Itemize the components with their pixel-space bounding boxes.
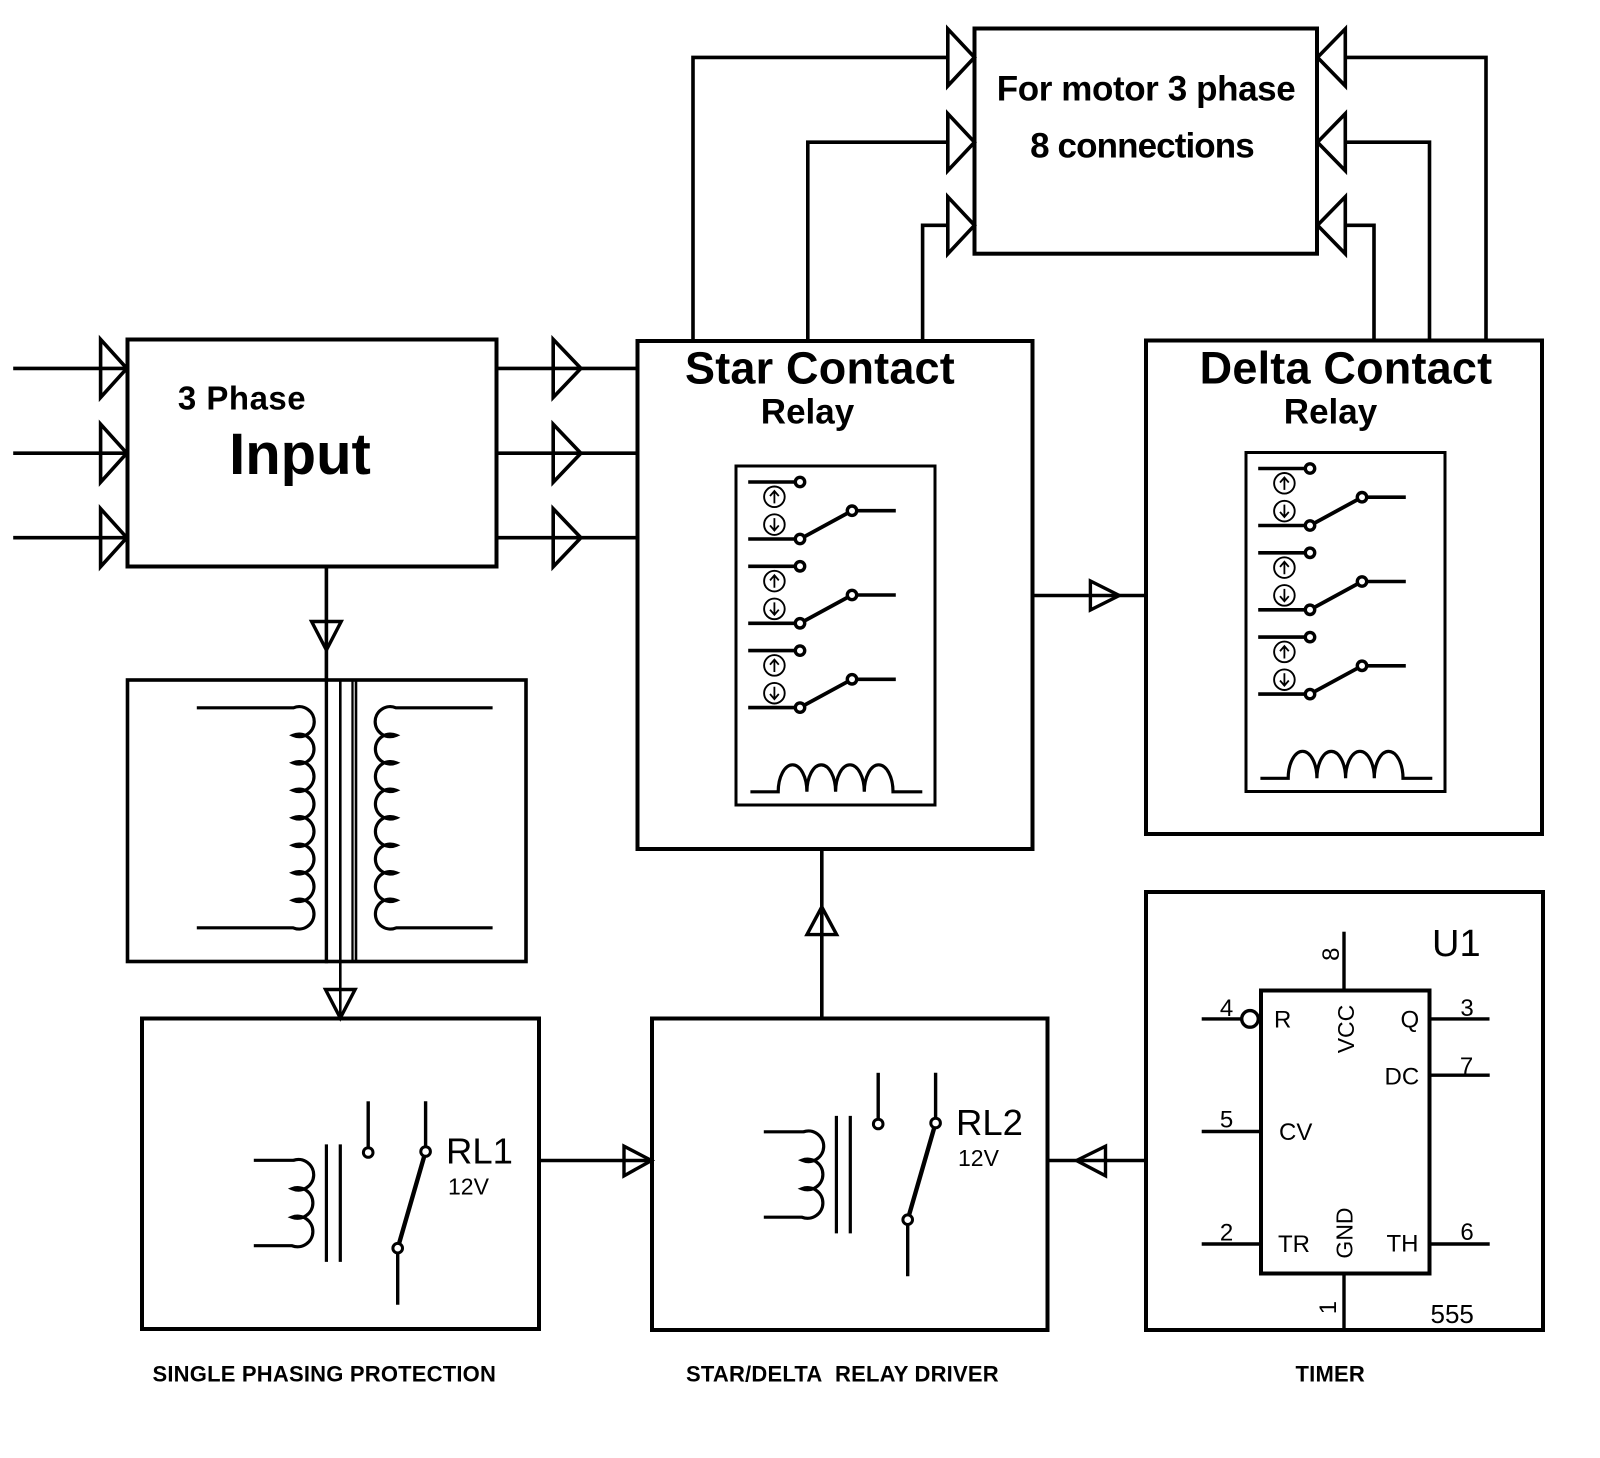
relay RL1 coil bbox=[255, 1159, 313, 1246]
arrow: L2 toward star contact bbox=[553, 424, 581, 482]
pin 3 wire (Q output) bbox=[1430, 1017, 1488, 1020]
arrow: star to delta bbox=[1090, 581, 1119, 610]
pin 7 wire (DC) bbox=[1430, 1073, 1489, 1076]
relay RL1 contact circles bbox=[363, 1148, 373, 1158]
pin 1 wire (GND) bbox=[1342, 1274, 1345, 1331]
svg-text:TIMER: TIMER bbox=[1296, 1361, 1365, 1386]
svg-text:555: 555 bbox=[1431, 1299, 1474, 1329]
arrow: L3 into input block bbox=[101, 509, 127, 567]
block: star/delta relay driver box (RL2) bbox=[652, 1019, 1048, 1331]
svg-text:TH: TH bbox=[1387, 1231, 1419, 1258]
svg-text:7: 7 bbox=[1460, 1053, 1473, 1080]
wire: delta output 3 to motor box bbox=[1345, 225, 1374, 340]
svg-text:8: 8 bbox=[1318, 948, 1345, 961]
relay K2 inner box (delta) bbox=[1246, 453, 1445, 792]
wire: star to delta contact bbox=[1033, 594, 1147, 598]
pin 4 wire (reset) bbox=[1203, 1017, 1241, 1020]
block: transformer box bbox=[128, 680, 527, 962]
svg-text:5: 5 bbox=[1220, 1106, 1233, 1133]
relay K1 contacts pole 2 (star) bbox=[750, 562, 894, 628]
svg-text:VCC: VCC bbox=[1333, 1005, 1359, 1054]
wire: L2 input box to star contact box bbox=[497, 451, 638, 455]
svg-text:Input: Input bbox=[229, 422, 371, 487]
wire: RL1 to RL2 bbox=[539, 1159, 652, 1163]
arrow: L2 into input block bbox=[101, 424, 127, 482]
svg-text:GND: GND bbox=[1332, 1207, 1358, 1258]
wire: delta output 1 to motor box bbox=[1345, 57, 1486, 340]
relay RL2 coil bbox=[765, 1131, 823, 1218]
wire: input box down to transformer bbox=[325, 567, 329, 681]
svg-text:Relay: Relay bbox=[761, 392, 855, 431]
arrow: timer to RL2 bbox=[1077, 1146, 1106, 1176]
relay RL1 fixed contact bbox=[367, 1103, 370, 1148]
block: single phasing protection box (RL1) bbox=[142, 1019, 539, 1330]
svg-text:RL2: RL2 bbox=[956, 1102, 1023, 1143]
arrow: star wire 2 into motor box bbox=[948, 114, 975, 171]
svg-text:Relay: Relay bbox=[1284, 392, 1378, 431]
wire: phase L1 input line bbox=[15, 367, 128, 371]
svg-text:TR: TR bbox=[1278, 1231, 1310, 1258]
svg-text:For motor 3 phase: For motor 3 phase bbox=[997, 70, 1296, 109]
transformer core line 1 / output wire to RL1 box bbox=[339, 680, 342, 1018]
arrow: star wire 3 into motor box bbox=[948, 197, 975, 254]
wire: phase L3 input line bbox=[15, 536, 128, 540]
relay RL2 core lines bbox=[836, 1118, 850, 1232]
arrow: delta wire 2 into motor box bbox=[1318, 114, 1346, 171]
svg-text:RL1: RL1 bbox=[446, 1131, 513, 1172]
svg-text:Star Contact: Star Contact bbox=[685, 343, 955, 394]
relay K2 contacts pole 3 (delta) bbox=[1260, 632, 1404, 698]
svg-text:DC: DC bbox=[1385, 1064, 1420, 1091]
svg-text:6: 6 bbox=[1460, 1219, 1473, 1246]
wire: delta output 2 to motor box bbox=[1345, 142, 1429, 340]
arrow: delta wire 1 into motor box bbox=[1318, 29, 1346, 86]
arrow: L3 toward star contact bbox=[553, 509, 581, 567]
arrow: L1 into input block bbox=[101, 339, 127, 397]
transformer core line 2 bbox=[351, 680, 353, 962]
arrow: up into star contact box bbox=[807, 907, 837, 935]
svg-text:STAR/DELTA RELAY DRIVER: STAR/DELTA RELAY DRIVER bbox=[686, 1361, 999, 1386]
svg-text:SINGLE PHASING PROTECTION: SINGLE PHASING PROTECTION bbox=[153, 1361, 497, 1386]
relay K2 contacts pole 1 (delta) bbox=[1260, 464, 1404, 530]
svg-text:3: 3 bbox=[1460, 995, 1473, 1022]
block: timer box bbox=[1146, 892, 1543, 1330]
block: delta contact relay box bbox=[1146, 341, 1542, 835]
relay RL1 core lines bbox=[326, 1146, 340, 1260]
wire: star output 2 to motor box bbox=[808, 142, 948, 341]
svg-text:4: 4 bbox=[1220, 995, 1233, 1022]
svg-text:Delta Contact: Delta Contact bbox=[1200, 343, 1493, 394]
wire: star output 3 to motor box bbox=[923, 225, 948, 341]
wire: RL2 up to star contact box bbox=[820, 849, 824, 1019]
svg-text:R: R bbox=[1274, 1006, 1291, 1033]
wire: timer to RL2 bbox=[1048, 1159, 1147, 1163]
wire: through wire inside transformer box bbox=[325, 680, 328, 962]
relay K2 contacts pole 2 (delta) bbox=[1260, 548, 1404, 614]
svg-text:CV: CV bbox=[1279, 1119, 1312, 1146]
svg-text:2: 2 bbox=[1220, 1220, 1233, 1247]
arrow: down into single phasing protection box bbox=[326, 990, 356, 1019]
relay K2 coil (delta) bbox=[1262, 751, 1431, 778]
wire: L3 input box to star contact box bbox=[497, 536, 638, 540]
svg-text:Q: Q bbox=[1401, 1006, 1420, 1033]
pin 8 wire (VCC) bbox=[1342, 933, 1345, 990]
pin 2 wire (TR) bbox=[1203, 1242, 1261, 1245]
pin 4 inversion bubble bbox=[1242, 1011, 1259, 1028]
relay RL1 moving contact and blade bbox=[398, 1103, 426, 1303]
wire: L1 input box to star contact box bbox=[497, 367, 638, 371]
wire: phase L2 input line bbox=[15, 451, 128, 455]
pin 6 wire (TH) bbox=[1430, 1242, 1489, 1245]
arrow: down into transformer bbox=[312, 622, 342, 651]
svg-text:8 connections: 8 connections bbox=[1030, 127, 1254, 166]
arrow: L1 toward star contact bbox=[553, 339, 581, 397]
relay K1 contacts pole 3 (star) bbox=[750, 646, 894, 712]
transformer core line 3 bbox=[355, 680, 358, 962]
relay RL2 contact circles bbox=[873, 1119, 883, 1129]
relay K1 coil (star) bbox=[752, 765, 921, 792]
arrow: star wire 1 into motor box bbox=[948, 29, 975, 86]
pin 5 wire (CV) bbox=[1203, 1130, 1261, 1133]
block: star contact relay box bbox=[638, 341, 1033, 849]
wire: star output 1 to motor box bbox=[693, 57, 948, 341]
relay K1 inner box (star) bbox=[736, 466, 935, 805]
svg-text:12V: 12V bbox=[448, 1174, 490, 1200]
relay RL2 moving contact and blade bbox=[908, 1075, 936, 1275]
arrow: RL1 to RL2 bbox=[624, 1146, 652, 1176]
svg-text:U1: U1 bbox=[1432, 923, 1481, 965]
svg-text:1: 1 bbox=[1315, 1301, 1342, 1314]
relay K1 contacts pole 1 (star) bbox=[750, 477, 894, 543]
relay RL2 fixed contact bbox=[877, 1075, 880, 1120]
arrow: delta wire 3 into motor box bbox=[1318, 197, 1346, 254]
transformer T1 primary winding bbox=[198, 707, 314, 929]
block: 3 Phase Input box bbox=[128, 340, 497, 567]
block: motor connection box bbox=[975, 29, 1318, 254]
svg-text:12V: 12V bbox=[958, 1145, 1000, 1171]
transformer T1 secondary winding bbox=[375, 707, 491, 929]
op-amp U1: 555 timer IC body bbox=[1261, 991, 1430, 1274]
svg-text:3 Phase: 3 Phase bbox=[178, 380, 306, 417]
